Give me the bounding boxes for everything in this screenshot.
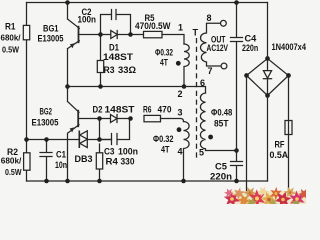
svg-text:6: 6 [200,78,205,88]
svg-text:R3: R3 [104,65,115,75]
svg-text:1N4007x4: 1N4007x4 [272,42,307,52]
svg-text:680k/: 680k/ [1,156,22,166]
svg-text:R4: R4 [106,157,118,167]
diode D1 [101,31,144,63]
resistor R6 [143,105,172,122]
svg-text:100n: 100n [118,147,138,157]
node junction B [97,137,102,142]
resistor R2 [1,147,30,177]
svg-text:1: 1 [178,23,183,33]
svg-text:E13005: E13005 [32,118,59,128]
wire pin2 to pin6 [184,87,206,94]
svg-text:330: 330 [121,157,135,167]
bridge rectifier 1N4007x4 [244,42,306,98]
wire junction A-B [99,119,101,140]
node R1R2 junction [24,137,29,142]
svg-text:DB3: DB3 [75,154,93,164]
node C1 bottom [44,179,49,184]
svg-text:2: 2 [178,89,183,99]
wire BG1 base lead [79,34,101,36]
wire left column [26,3,28,182]
capacitor C5 [210,151,243,182]
diac DB3 [75,131,93,165]
wire R5 to pin1 [162,35,184,45]
resistor R1 [1,22,30,55]
capacitor C2 [78,7,131,35]
svg-text:C4: C4 [245,34,257,44]
svg-text:470: 470 [158,105,172,115]
svg-text:0.5A: 0.5A [270,150,289,160]
svg-text:D2: D2 [93,105,103,115]
node winding34 polarity dot [177,127,182,132]
svg-text:E13005: E13005 [38,34,64,44]
node C4C5 midpoint [234,148,239,153]
svg-text:Φ0.48: Φ0.48 [211,108,232,118]
wire top rail [27,2,268,4]
node BG1 collector top [65,0,70,5]
wire bottom rail [27,180,268,182]
transistor BG2 [32,87,80,182]
fuse RF [270,76,293,195]
svg-text:BG1: BG1 [43,24,59,34]
wire mid rail [27,139,112,141]
svg-text:148ST: 148ST [105,105,136,115]
svg-text:3: 3 [178,108,183,118]
capacitor C4 [231,3,259,151]
capacitor C3 [100,119,139,157]
node BG1 base junction [98,32,103,37]
svg-text:220n: 220n [242,43,258,53]
svg-text:100n: 100n [78,15,97,25]
svg-text:C3: C3 [104,147,115,157]
resistor R5 [135,13,171,38]
svg-text:680k/: 680k/ [1,33,22,43]
svg-text:148ST: 148ST [103,52,134,62]
node midpoint left [65,84,70,89]
svg-text:33Ω: 33Ω [118,65,136,75]
svg-text:220n: 220n [210,172,232,182]
svg-text:R1: R1 [5,22,16,32]
svg-text:85T: 85T [214,119,229,129]
svg-text:10n: 10n [55,160,67,170]
svg-text:C5: C5 [215,162,227,172]
node pin2 junction [182,84,187,89]
svg-text:4: 4 [178,147,183,157]
transformer core [196,38,198,158]
svg-text:5: 5 [199,148,204,158]
transformer winding 8-7 output [201,13,229,76]
resistor R4 [96,144,134,181]
transistor BG1 [38,3,80,87]
wire midpoint rail [68,86,185,88]
svg-text:Φ0.32: Φ0.32 [155,48,173,58]
svg-text:BG2: BG2 [40,107,53,117]
svg-text:8: 8 [207,13,212,23]
svg-text:RF: RF [275,140,285,150]
svg-text:0.5W: 0.5W [5,167,22,177]
node C5 bottom [234,179,239,184]
svg-text:0.5W: 0.5W [2,44,20,54]
node R3 bottom [98,84,103,89]
node winding1 polarity dot [176,61,181,66]
wire R6 to pin3 [161,119,184,122]
node BG2 base junction [97,116,102,121]
node BG2 emitter bottom [65,179,70,184]
svg-text:D1: D1 [109,43,119,53]
wire bridge top to rail [267,3,269,59]
diode D2 [93,105,136,123]
svg-text:470/0.5W: 470/0.5W [135,21,171,31]
node R4 bottom [97,179,102,184]
node C4 top [234,0,239,5]
transformer winding 1-2 [184,44,189,87]
wire BG2 base lead [78,118,99,120]
svg-text:7: 7 [208,66,213,76]
resistor R3 [97,35,136,87]
watermark flowers [222,184,312,211]
transformer winding 6-5 primary [200,93,236,151]
capacitor C1 [40,140,67,182]
node winding65 polarity dot [208,135,213,140]
svg-text:AC12V: AC12V [207,43,229,53]
node winding4 bottom [181,179,186,184]
svg-text:C1: C1 [56,150,66,160]
svg-text:Φ0.32: Φ0.32 [153,134,174,144]
wire AC left [246,76,248,195]
node D1 cathode junction [128,32,133,37]
transformer winding 3-4 [184,122,190,182]
svg-text:4T: 4T [161,145,170,155]
wire bridge bottom to rail [267,96,269,182]
svg-text:T: T [193,28,199,38]
node C1 top [44,137,49,142]
svg-text:R6: R6 [143,105,152,115]
svg-text:4T: 4T [160,58,168,68]
node D2 cathode junction [128,116,133,121]
